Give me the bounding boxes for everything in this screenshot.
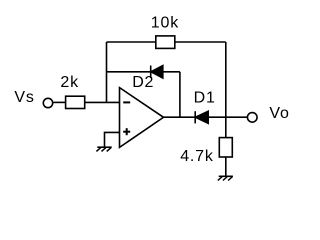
resistor 10k <box>156 36 175 49</box>
wire right vertical down to output node and 4.7k <box>225 42 227 138</box>
diode D2 triangle <box>151 66 163 78</box>
diode D1 cathode bar <box>194 111 196 123</box>
ground left bar <box>97 146 111 148</box>
resistor 2k <box>66 96 85 108</box>
ground left hatches <box>96 147 111 151</box>
svg-text:2k: 2k <box>60 74 79 91</box>
wire D2 to drop <box>163 71 180 73</box>
svg-text:Vs: Vs <box>14 89 34 106</box>
wire D2 drop vertical <box>179 72 181 117</box>
diode D1 triangle <box>195 111 208 123</box>
node Vo terminal <box>247 113 257 123</box>
op-amp plus sign <box>123 131 130 133</box>
resistor 4.7k <box>219 138 232 157</box>
svg-text:D1: D1 <box>194 89 216 106</box>
svg-text:4.7k: 4.7k <box>180 148 214 165</box>
wire top left to 10k <box>107 41 156 43</box>
svg-text:Vo: Vo <box>269 105 289 122</box>
wire 4.7k to ground <box>225 157 227 176</box>
diode D2 cathode bar <box>150 66 152 79</box>
wire op-amp output to D1 <box>164 116 196 118</box>
wire 10k to right vertical <box>175 41 226 43</box>
wire D1 to Vo terminal <box>208 116 247 118</box>
wire Vs terminal to R 2k <box>53 101 65 103</box>
wire 2k to op-amp minus input <box>85 101 120 103</box>
svg-text:10k: 10k <box>151 14 179 31</box>
ground right hatches <box>218 177 233 181</box>
op-amp U1 triangle <box>120 88 164 148</box>
node Vs terminal <box>43 98 52 107</box>
wire D2 branch horizontal <box>107 71 151 73</box>
op-amp minus sign <box>123 101 130 103</box>
wire left vertical feedback riser <box>106 42 108 102</box>
ground right bar <box>219 175 233 177</box>
svg-text:D2: D2 <box>132 74 154 91</box>
wire plus input to ground <box>105 132 120 147</box>
